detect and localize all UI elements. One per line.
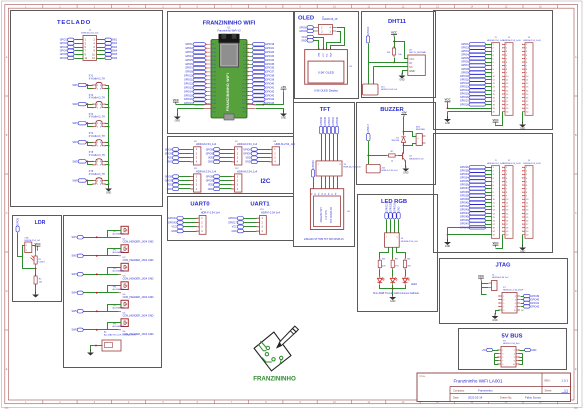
svg-text:GPIO15: GPIO15 bbox=[460, 93, 469, 96]
svg-text:GPIO2: GPIO2 bbox=[185, 47, 193, 50]
node GPIO33 board right bbox=[248, 55, 275, 58]
node GPIO16 board left bbox=[184, 98, 211, 101]
svg-text:GPIO33: GPIO33 bbox=[312, 160, 315, 169]
wire bbox=[87, 103, 93, 107]
svg-text:2: 2 bbox=[26, 250, 27, 252]
svg-text:GPIO14: GPIO14 bbox=[184, 90, 193, 93]
svg-text:GPIO8: GPIO8 bbox=[206, 148, 214, 151]
resistor R5 470 bbox=[391, 258, 399, 270]
connector CON1 HDR-F-2.54_1x3 bbox=[363, 84, 398, 95]
svg-text:GPIO37: GPIO37 bbox=[328, 116, 331, 125]
svg-text:GPIO33: GPIO33 bbox=[460, 173, 469, 176]
svg-text:ALLIGATOR_CLIP_CONNECTOR: ALLIGATOR_CLIP_CONNECTOR bbox=[104, 333, 136, 336]
svg-text:GPIO5: GPIO5 bbox=[461, 57, 469, 60]
node GPIO36 tft bbox=[319, 116, 323, 133]
svg-text:GPIO6: GPIO6 bbox=[461, 61, 469, 64]
connector J15 HDR-F-2.54_1x3 buzzer bbox=[366, 164, 398, 173]
node GPIO46 bank 2 bbox=[460, 219, 492, 222]
svg-text:GPIO9: GPIO9 bbox=[206, 152, 214, 155]
svg-text:SW4: SW4 bbox=[72, 292, 78, 295]
power flag VCC bank1 bottom bbox=[492, 118, 499, 124]
svg-text:IO9: IO9 bbox=[243, 80, 246, 82]
node SW1 testpoint bbox=[72, 236, 121, 240]
svg-text:0.96 OLED Display: 0.96 OLED Display bbox=[314, 89, 338, 93]
node GPIO12 board left bbox=[184, 82, 211, 85]
node GPIO34 tft bbox=[331, 116, 335, 133]
node GPIO5 bank 1 bbox=[461, 57, 491, 60]
svg-text:GPIO8: GPIO8 bbox=[206, 175, 214, 178]
Franzininho logo board outline bbox=[254, 332, 291, 371]
svg-text:3V3: 3V3 bbox=[212, 44, 215, 46]
svg-text:GPIO9: GPIO9 bbox=[206, 180, 214, 183]
svg-text:HDR-M-2.54_1x4: HDR-M-2.54_1x4 bbox=[275, 142, 296, 146]
svg-text:SW6: SW6 bbox=[112, 57, 118, 60]
node SW4 label bbox=[72, 141, 86, 145]
wire dht connector bbox=[369, 63, 408, 85]
svg-text:SW4: SW4 bbox=[72, 141, 78, 144]
node GPIO44 bank 2 bbox=[460, 212, 492, 215]
svg-text:ALLIGATOR: ALLIGATOR bbox=[113, 307, 125, 310]
svg-text:IO39: IO39 bbox=[212, 68, 216, 70]
svg-text:7: 7 bbox=[503, 306, 504, 308]
node GPIO8 bbox=[206, 148, 235, 152]
svg-text:DHT11: DHT11 bbox=[388, 19, 407, 25]
svg-text:HDR-M-2.54_1x8: HDR-M-2.54_1x8 bbox=[344, 167, 362, 169]
svg-text:GPIO36: GPIO36 bbox=[460, 184, 469, 187]
node GPIO4 board left bbox=[185, 55, 211, 58]
connector J4 HDR-M-2.54_1x2 bbox=[489, 275, 509, 291]
svg-text:GPIO34: GPIO34 bbox=[266, 59, 275, 62]
svg-text:GPIO3: GPIO3 bbox=[60, 46, 68, 49]
wire bbox=[87, 141, 93, 145]
wire gpio to connector bbox=[368, 156, 370, 165]
svg-text:GPIO44: GPIO44 bbox=[266, 98, 275, 101]
oled display pin stubs bbox=[319, 48, 331, 50]
svg-text:TFT DISPLAY: TFT DISPLAY bbox=[329, 207, 333, 223]
svg-text:NC: NC bbox=[521, 310, 525, 312]
node GPIO7 bank 1 bbox=[461, 64, 491, 67]
node GPIO41 bank 2 bbox=[460, 201, 492, 204]
svg-text:IO36: IO36 bbox=[212, 80, 216, 82]
svg-text:7: 7 bbox=[502, 360, 503, 362]
svg-text:FRANZININHO: FRANZININHO bbox=[253, 375, 296, 382]
ground ldr bbox=[32, 292, 39, 298]
node GPIO35 bank 2 bbox=[460, 180, 492, 183]
svg-text:HDR-M-2.54_1x20: HDR-M-2.54_1x20 bbox=[523, 163, 541, 165]
svg-text:GPIO44: GPIO44 bbox=[168, 217, 177, 220]
svg-text:GPIO38: GPIO38 bbox=[336, 116, 339, 125]
node VDD bbox=[246, 156, 273, 160]
node SW1 keypad bbox=[97, 38, 118, 41]
svg-text:5: 5 bbox=[502, 357, 503, 359]
svg-text:ALLIGATOR: ALLIGATOR bbox=[113, 251, 125, 254]
svg-text:GPIO38: GPIO38 bbox=[460, 191, 469, 194]
node VDD bbox=[167, 156, 194, 160]
node GPIO33 tft bbox=[311, 160, 315, 177]
node GPIO17 bbox=[228, 221, 259, 225]
node GPIO44 bbox=[168, 217, 199, 221]
svg-text:GPIO18: GPIO18 bbox=[460, 103, 469, 106]
node GPIO38 bank 2 bbox=[460, 191, 492, 194]
pin header J3 bank 1 bbox=[522, 43, 533, 116]
svg-text:GND: GND bbox=[106, 192, 112, 195]
svg-text:P4: P4 bbox=[322, 193, 324, 195]
svg-text:GPIO16: GPIO16 bbox=[184, 98, 193, 101]
svg-text:DHT11_DIP/SMD: DHT11_DIP/SMD bbox=[409, 52, 427, 54]
svg-text:OLED: OLED bbox=[298, 16, 314, 22]
node GPIO10 bank 1 bbox=[460, 75, 492, 78]
svg-text:IO45: IO45 bbox=[212, 52, 216, 54]
node GPIO8 bank 1 bbox=[461, 68, 491, 71]
node SW5 label bbox=[72, 160, 86, 164]
node GND bbox=[171, 229, 199, 233]
svg-text:GND: GND bbox=[520, 128, 526, 131]
node GPIO42 board right bbox=[248, 90, 275, 93]
svg-text:SW2: SW2 bbox=[72, 255, 78, 258]
wire bus left pins bbox=[495, 354, 499, 365]
node GPIO6 keypad row bbox=[60, 56, 84, 59]
wire led cathodes to gnd bbox=[380, 270, 406, 296]
svg-text:VCC: VCC bbox=[444, 98, 451, 102]
svg-text:FRANZININHO WIFI: FRANZININHO WIFI bbox=[226, 73, 230, 111]
svg-text:VCC: VCC bbox=[323, 52, 325, 57]
svg-text:GPIO8: GPIO8 bbox=[165, 175, 173, 178]
svg-text:KY5: KY5 bbox=[89, 152, 94, 154]
pin header J2 bank 2 bbox=[502, 166, 513, 239]
node SW6 keypad bbox=[97, 56, 118, 59]
svg-text:GPIO40: GPIO40 bbox=[460, 198, 469, 201]
svg-text:C: C bbox=[575, 212, 577, 215]
node GND bbox=[167, 187, 194, 191]
svg-text:Franzininho: Franzininho bbox=[478, 389, 493, 393]
node GPIO37 bank 2 bbox=[460, 187, 492, 190]
node GPIO2 bank 1 bbox=[461, 46, 491, 49]
node GND bbox=[245, 160, 272, 164]
svg-text:GPIO11: GPIO11 bbox=[184, 79, 193, 82]
svg-text:GPIO37: GPIO37 bbox=[266, 71, 275, 74]
node SW5 testpoint bbox=[72, 310, 121, 314]
node SW3 label bbox=[72, 122, 86, 126]
svg-text:CON_HEADER_1X04 GND: CON_HEADER_1X04 GND bbox=[123, 278, 154, 281]
svg-text:IO46: IO46 bbox=[212, 48, 216, 50]
wire testpoint elbow bbox=[108, 249, 122, 256]
wire to ground bus bbox=[106, 181, 110, 185]
svg-text:GPIO33: GPIO33 bbox=[266, 55, 275, 58]
node GPIO43 bank 2 bbox=[460, 208, 492, 211]
svg-text:VCC: VCC bbox=[409, 58, 414, 61]
wire resistor to base bbox=[398, 155, 403, 157]
node GPIO9 bank 1 bbox=[461, 71, 491, 74]
svg-text:5mm RGB Tri-color LED Common C: 5mm RGB Tri-color LED Common Cathode bbox=[373, 292, 420, 295]
svg-text:GPIO47: GPIO47 bbox=[460, 223, 469, 226]
power flag VCC bank 1 bbox=[444, 98, 451, 104]
board pin names columns bbox=[212, 44, 247, 113]
svg-text:IO12: IO12 bbox=[242, 91, 246, 93]
svg-text:GPIO9: GPIO9 bbox=[165, 152, 173, 155]
node GPIO9 bbox=[165, 152, 194, 156]
wire tft labels to connector bbox=[322, 134, 338, 161]
svg-text:Franzininho WiFi V2: Franzininho WiFi V2 bbox=[217, 28, 241, 32]
svg-text:GPIO42: GPIO42 bbox=[460, 205, 469, 208]
svg-text:GPIO13: GPIO13 bbox=[460, 86, 469, 89]
svg-text:P3: P3 bbox=[318, 193, 320, 195]
svg-text:Date:: Date: bbox=[453, 396, 459, 400]
connector P3 HDR-F-2.54_8x1 bbox=[497, 341, 520, 368]
node GND bbox=[208, 160, 235, 164]
svg-text:HDR-M-2.54 1x2: HDR-M-2.54 1x2 bbox=[492, 277, 509, 279]
svg-text:1: 1 bbox=[26, 245, 27, 247]
svg-text:VDD: VDD bbox=[167, 184, 172, 187]
test point TP3 bbox=[113, 263, 154, 280]
ground dht bbox=[399, 73, 406, 82]
svg-text:HDR-IDC-2.54-2X5P: HDR-IDC-2.54-2X5P bbox=[503, 290, 524, 292]
svg-text:HDR-M-2.54_1x4: HDR-M-2.54_1x4 bbox=[196, 169, 217, 173]
switch KY5 6x6x4.3_TH bbox=[89, 152, 106, 167]
svg-text:HDR-M-2.54_1x4: HDR-M-2.54_1x4 bbox=[237, 169, 258, 173]
svg-text:HDR-M-2.54_1x20: HDR-M-2.54_1x20 bbox=[487, 40, 505, 42]
svg-text:GPIO35: GPIO35 bbox=[266, 63, 275, 66]
svg-text:UART1: UART1 bbox=[250, 202, 270, 208]
node GPIO4 bank 1 bbox=[461, 53, 491, 56]
svg-text:IO15: IO15 bbox=[242, 103, 246, 105]
node GPIO45 bank 2 bbox=[460, 215, 492, 218]
wire testpoint elbow bbox=[108, 286, 122, 293]
svg-text:GND: GND bbox=[167, 161, 173, 164]
svg-text:VCC: VCC bbox=[492, 118, 499, 122]
svg-text:10: 10 bbox=[514, 310, 516, 312]
svg-text:GND: GND bbox=[409, 70, 415, 73]
svg-text:IO1: IO1 bbox=[243, 48, 246, 50]
wire to ground bus bbox=[106, 124, 110, 128]
section box DHT11 bbox=[362, 12, 436, 98]
svg-text:5V0: 5V0 bbox=[212, 112, 215, 114]
svg-text:REV:: REV: bbox=[545, 379, 551, 383]
node GPIO9 bbox=[206, 152, 235, 156]
node GPIO9 bbox=[206, 179, 235, 183]
node VDD bbox=[167, 183, 194, 187]
node GPIO9 bbox=[243, 152, 272, 156]
pin header J1 bank 1 bbox=[491, 43, 500, 116]
wire vcc to header bank1 bbox=[447, 104, 492, 112]
node GPIO35 board right bbox=[248, 62, 275, 65]
svg-text:HDR-F-2.54 1x3: HDR-F-2.54 1x3 bbox=[382, 170, 399, 172]
svg-text:CON_HEADER_1X04 GND: CON_HEADER_1X04 GND bbox=[123, 241, 154, 244]
node SW2 keypad bbox=[97, 42, 118, 45]
svg-text:GPIO39: GPIO39 bbox=[266, 79, 275, 82]
node VCC oled bbox=[301, 35, 323, 49]
node GPIO36 bank 2 bbox=[460, 183, 492, 186]
svg-text:UART0: UART0 bbox=[190, 202, 209, 208]
svg-text:240x240 SPI: 240x240 SPI bbox=[319, 207, 323, 222]
node GPIO6 bank 1 bbox=[461, 60, 491, 63]
node GPIO2 board left bbox=[185, 47, 211, 50]
svg-text:GND: GND bbox=[403, 172, 409, 175]
svg-text:HDR-M-2.54_2x6: HDR-M-2.54_2x6 bbox=[81, 32, 99, 34]
section box OLED bbox=[295, 12, 359, 99]
svg-text:GPIO21: GPIO21 bbox=[460, 166, 469, 169]
node GPIO12 bank 1 bbox=[460, 82, 492, 85]
svg-text:HDR-F-2.54_8x1: HDR-F-2.54_8x1 bbox=[503, 343, 520, 345]
node SW6 label bbox=[72, 179, 86, 183]
svg-text:SW2: SW2 bbox=[72, 103, 78, 106]
Franzininho logo pencil bbox=[277, 326, 298, 348]
svg-text:GND: GND bbox=[445, 245, 451, 248]
wire testpoint elbow bbox=[108, 323, 122, 330]
svg-text:KY1: KY1 bbox=[89, 76, 94, 78]
svg-text:4: 4 bbox=[515, 299, 516, 301]
svg-text:1N4148: 1N4148 bbox=[391, 140, 399, 142]
svg-text:GPIO5: GPIO5 bbox=[60, 53, 68, 56]
svg-text:S8050/SOT-23: S8050/SOT-23 bbox=[409, 158, 424, 160]
svg-text:OLED0.96_4P: OLED0.96_4P bbox=[322, 18, 338, 21]
svg-text:3: 3 bbox=[503, 299, 504, 301]
ground ledrgb bbox=[389, 294, 396, 303]
svg-text:240x240 ST7789 TFT SPI DISPLAY: 240x240 ST7789 TFT SPI DISPLAY bbox=[304, 238, 344, 241]
svg-text:GPIO26: GPIO26 bbox=[460, 169, 469, 172]
wire testpoint elbow bbox=[108, 268, 122, 275]
svg-text:IO33: IO33 bbox=[212, 91, 216, 93]
svg-text:1: 1 bbox=[503, 296, 504, 298]
svg-text:GND: GND bbox=[208, 188, 214, 191]
node GPIO38 tft bbox=[335, 116, 339, 133]
connector CN5 HDR-M-2.54_1x2 bbox=[25, 238, 41, 253]
wire dht gnd bbox=[403, 71, 408, 75]
svg-text:IO13: IO13 bbox=[242, 95, 246, 97]
svg-text:GPIO34: GPIO34 bbox=[332, 116, 335, 125]
node GPIO34 bank 2 bbox=[460, 176, 492, 179]
svg-text:GPIO39: GPIO39 bbox=[460, 194, 469, 197]
test point TP5 bbox=[113, 300, 154, 317]
power flag VCC bank2 bottom bbox=[496, 235, 503, 249]
Franzininho logo traces bbox=[259, 341, 283, 364]
pin header J3 bank 2 bbox=[522, 166, 533, 239]
svg-text:VDD: VDD bbox=[208, 184, 213, 187]
node GND bus bbox=[520, 348, 537, 352]
svg-text:5V BUS: 5V BUS bbox=[502, 334, 523, 340]
wire VCC net dht bbox=[393, 37, 407, 59]
svg-text:TECLADO: TECLADO bbox=[57, 20, 91, 26]
svg-text:GPIO2: GPIO2 bbox=[461, 46, 469, 49]
svg-text:GPIO21: GPIO21 bbox=[266, 47, 275, 50]
power flag VCC jtag bbox=[478, 274, 485, 280]
svg-text:IO10: IO10 bbox=[242, 84, 246, 86]
svg-text:IO11: IO11 bbox=[242, 87, 246, 89]
svg-text:HDR-M-2.54_1x20: HDR-M-2.54_1x20 bbox=[503, 163, 521, 165]
svg-text:SW5: SW5 bbox=[112, 53, 118, 56]
connector headers HDR-M-2.54_1x20 bank 2 bbox=[487, 160, 542, 165]
svg-text:KY-6x6x4.3_TH: KY-6x6x4.3_TH bbox=[89, 79, 105, 81]
svg-text:LDR: LDR bbox=[35, 220, 46, 226]
svg-text:CON_HEADER_1X04 GND: CON_HEADER_1X04 GND bbox=[123, 315, 154, 318]
node GPIO10 board left bbox=[184, 74, 211, 77]
title block REV bbox=[545, 379, 569, 383]
svg-text:GPIO7: GPIO7 bbox=[185, 67, 193, 70]
wire 5v to buzzer net bbox=[403, 117, 417, 137]
node GND ledrgb bbox=[397, 206, 401, 219]
svg-text:HDR-M-2.54_2x2: HDR-M-2.54_2x2 bbox=[401, 241, 419, 243]
svg-text:VCC: VCC bbox=[492, 241, 499, 245]
switch KY3 6x6x4.3_TH bbox=[89, 114, 106, 129]
svg-text:GND: GND bbox=[212, 108, 217, 110]
svg-text:P8: P8 bbox=[335, 193, 337, 195]
resistor R2 10k ldr bbox=[34, 274, 42, 286]
svg-text:IO40: IO40 bbox=[212, 64, 216, 66]
wire vcc to j4 bbox=[482, 281, 489, 295]
svg-text:P7: P7 bbox=[332, 193, 334, 195]
section box JTAG bbox=[440, 259, 568, 324]
node SW4 keypad bbox=[97, 49, 118, 52]
svg-text:CON_HEADER_1X04 GND: CON_HEADER_1X04 GND bbox=[123, 259, 154, 262]
svg-text:SW6: SW6 bbox=[72, 179, 78, 182]
node GPIO6 board left bbox=[185, 62, 211, 65]
sensor U5 DHT11_DIP/SMD bbox=[408, 50, 427, 76]
ground jtag bbox=[492, 313, 499, 322]
svg-text:GPIO4: GPIO4 bbox=[60, 50, 68, 53]
svg-text:IO41: IO41 bbox=[212, 60, 216, 62]
svg-text:SW3: SW3 bbox=[72, 122, 78, 125]
svg-text:IO21: IO21 bbox=[212, 99, 216, 101]
svg-text:GPIO10: GPIO10 bbox=[460, 75, 469, 78]
svg-text:ALLIGATOR: ALLIGATOR bbox=[113, 325, 125, 328]
svg-text:1: 1 bbox=[502, 350, 503, 352]
svg-text:P6: P6 bbox=[329, 193, 331, 195]
test point TP1 bbox=[113, 226, 154, 243]
section box GPIO bank 1 bbox=[434, 11, 553, 130]
svg-text:VDD: VDD bbox=[208, 157, 213, 160]
node GPIO39 jtag bbox=[521, 294, 540, 297]
svg-text:I2C: I2C bbox=[261, 178, 271, 185]
connector J2 HDR-M-2.54_2x6 bbox=[81, 30, 99, 61]
board Franzininho WiFi module U1 bbox=[211, 34, 247, 120]
node GPIO26 board right bbox=[248, 51, 275, 54]
power flag VCC dht bbox=[391, 31, 398, 37]
svg-text:Franzininho WiFi LA001: Franzininho WiFi LA001 bbox=[453, 379, 502, 384]
svg-text:3V3: 3V3 bbox=[243, 112, 246, 114]
svg-text:HDR-F-2.54 1x3: HDR-F-2.54 1x3 bbox=[381, 89, 398, 91]
node GPIO21 board right bbox=[248, 47, 275, 50]
node GPIO1 bank 1 bbox=[461, 43, 491, 46]
node GPIO40 bank 2 bbox=[460, 198, 492, 201]
svg-text:KY-6x6x4.3_TH: KY-6x6x4.3_TH bbox=[89, 174, 105, 176]
wire board right GND bbox=[256, 109, 284, 113]
svg-text:GPIO5: GPIO5 bbox=[17, 217, 20, 225]
svg-text:IO6: IO6 bbox=[243, 68, 246, 70]
node GPIO1 board left bbox=[185, 43, 211, 46]
svg-text:GPIO13: GPIO13 bbox=[184, 86, 193, 89]
svg-text:VCC: VCC bbox=[391, 31, 398, 35]
node GND bbox=[231, 229, 259, 233]
svg-text:ALLIGATOR: ALLIGATOR bbox=[113, 270, 125, 273]
photoresistor R1 LDR07 bbox=[31, 250, 46, 269]
node GPIO14 bank 1 bbox=[460, 89, 492, 92]
svg-text:KY3: KY3 bbox=[89, 114, 94, 116]
node GPIO45 board right bbox=[248, 102, 275, 105]
svg-text:9: 9 bbox=[502, 364, 503, 366]
section box TECLADO bbox=[11, 11, 163, 207]
svg-text:GPIO2: GPIO2 bbox=[60, 42, 68, 45]
svg-text:SW1: SW1 bbox=[72, 236, 78, 239]
svg-text:GPIO44: GPIO44 bbox=[460, 212, 469, 215]
svg-text:GND: GND bbox=[231, 230, 237, 233]
node GPIO13 board left bbox=[184, 86, 211, 89]
ground bank2 left bbox=[444, 228, 491, 249]
svg-text:SW2: SW2 bbox=[112, 42, 118, 45]
node GND bbox=[167, 160, 194, 164]
pin header J1 bank 2 bbox=[491, 166, 500, 239]
node VCC bbox=[171, 225, 199, 229]
svg-text:HDR-M-2.54_1x20: HDR-M-2.54_1x20 bbox=[487, 163, 505, 165]
resistor R4 470 bbox=[378, 258, 386, 270]
